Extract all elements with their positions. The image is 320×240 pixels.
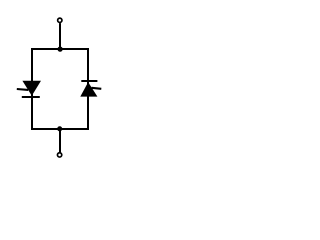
D1 anode triangle (22, 81, 41, 96)
terminal (bottom) (57, 153, 61, 157)
D2 gate stub (92, 88, 102, 89)
terminal (top) (58, 18, 62, 22)
D1 cathode bar (22, 96, 40, 98)
wire top stem (59, 23, 61, 49)
wire right rail (87, 48, 89, 130)
junction dot (top) (57, 46, 62, 51)
wire top rail (31, 48, 89, 50)
D2 anode triangle (80, 82, 97, 97)
wire bottom rail (31, 128, 89, 130)
wire left rail (31, 48, 33, 130)
wire bottom stem (59, 129, 61, 153)
D2 cathode bar (81, 80, 97, 82)
D1 gate stub (17, 88, 28, 91)
thyristor D2 (right, conducts upward) (80, 81, 101, 97)
thyristor D1 (left, conducts downward) (17, 81, 41, 97)
junction dot (bottom) (57, 126, 62, 131)
